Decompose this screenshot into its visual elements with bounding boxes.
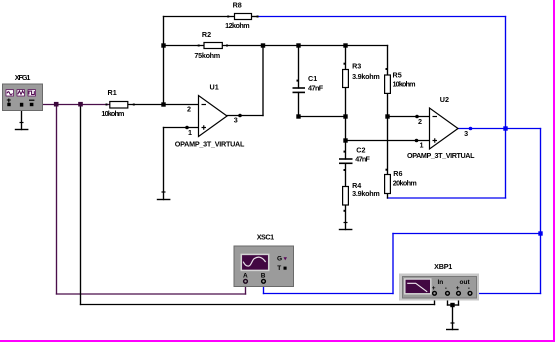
XFG1 button square	[28, 90, 36, 96]
svg-text:12kohm: 12kohm	[225, 21, 250, 30]
node: purple branch to XSC1 A	[54, 102, 59, 107]
wire: blue net from R8 right to far right vertical	[258, 16, 506, 18]
XFG1 + terminal	[7, 99, 11, 103]
svg-text:10kohm: 10kohm	[393, 79, 416, 88]
wire: blue vertical x=541 down to bode row	[540, 129, 542, 294]
wire: black horizontal y=304.5 to XBP1 in+	[81, 304, 435, 306]
svg-text:10kohm: 10kohm	[101, 109, 124, 118]
XFG1 button sine	[6, 90, 14, 96]
svg-text:3.9kohm: 3.9kohm	[352, 72, 380, 81]
node: inverting node at pin2 wire	[161, 102, 165, 106]
svg-text:47nF: 47nF	[308, 84, 324, 93]
wire: U1 pin1 down to ground x=163.5	[163, 128, 165, 200]
wire: R5 top lead x=387.5 from R2 net corner	[387, 46, 389, 76]
svg-text:2: 2	[187, 105, 191, 114]
resistor R3 3.9kohm (vertical)	[343, 62, 380, 88]
wire: XBP1 in-/out+ join y=305	[448, 304, 459, 306]
svg-text:C2: C2	[356, 146, 365, 155]
wire: C1 top stem x=298.5	[298, 46, 300, 89]
wire: y=140.5 from R3 column to U2 pin1	[346, 140, 430, 142]
svg-text:U1: U1	[210, 83, 219, 92]
ground below XBP1	[446, 323, 459, 330]
node: inverting node at R2 net	[161, 43, 165, 47]
wire: R5 bottom lead down to R6 top	[387, 94, 389, 175]
capacitor C1 47nF	[293, 74, 324, 92]
svg-text:T: T	[277, 265, 281, 272]
svg-text:75kohm: 75kohm	[194, 51, 220, 60]
resistor R1 10kohm (horizontal)	[101, 88, 134, 118]
pin dot U2 output	[469, 127, 473, 131]
wire: blue horizontal y=293.5 to XBP1 out-	[471, 293, 541, 295]
wire: R8 net top, from inverting node vertical to R8 left lead	[164, 16, 235, 18]
wire: black vertical x=81.5 down to XBP1 in+ row	[80, 105, 82, 305]
pin dot U2 pin1	[415, 139, 419, 143]
XFG1 - terminal	[29, 99, 34, 101]
svg-text:OPAMP_3T_VIRTUAL: OPAMP_3T_VIRTUAL	[407, 151, 475, 160]
wire: C2 bottom stem to R4	[345, 163, 347, 186]
wire: purple from XFG1 + terminal to R1 left lead	[34, 104, 110, 106]
oscilloscope XSC1	[234, 233, 294, 287]
svg-text:R8: R8	[233, 0, 242, 9]
wire: y=116.5 C1 to R3 column	[299, 116, 346, 118]
ground below R4	[339, 223, 353, 230]
node: R5 bottom / U2 pin2 branch	[385, 114, 389, 118]
wire: R8 right lead short black stub	[252, 16, 259, 18]
ground below XFG1	[15, 123, 29, 130]
svg-text:47nF: 47nF	[355, 155, 370, 164]
XSC1 screen	[241, 254, 268, 270]
wire: blue vertical x=505.5 down through U2 output to y=198	[505, 17, 507, 199]
node: blue junction right column	[538, 231, 542, 235]
XBP1 response trace	[407, 283, 427, 292]
svg-text:XSC1: XSC1	[257, 233, 274, 242]
node: XBP1 ground join	[450, 303, 454, 307]
node: C1 bottom junction	[296, 114, 300, 118]
sheet border magenta bottom	[0, 340, 555, 342]
op-amp U1 OPAMP_3T_VIRTUAL	[175, 83, 245, 149]
node: C2 top / U2 pin1 branch	[343, 138, 347, 142]
wire: blue up into XSC1 B terminal	[263, 283, 265, 294]
wire: purple horizontal y=294 to XSC1 A	[57, 293, 246, 295]
wire: y=116.5 from R5 column to U2 pin2	[388, 116, 430, 118]
wire: U1 pin1 input y=127.5	[164, 127, 199, 129]
svg-text:3.9kohm: 3.9kohm	[352, 189, 380, 198]
pin dot U2 pin2	[415, 115, 419, 119]
svg-text:1: 1	[420, 140, 424, 149]
resistor R6 20kohm (vertical)	[385, 169, 417, 194]
resistor R5 10kohm (vertical)	[385, 68, 416, 93]
resistor R2 75kohm (horizontal)	[194, 30, 228, 60]
wire: blue horizontal y=233.5	[393, 233, 541, 235]
wire: U1 pin2 input y=104.5 from R1	[128, 104, 199, 106]
node: R3 top branch	[343, 43, 347, 47]
wire: XBP1 out+ stem	[458, 295, 460, 305]
svg-text:R6: R6	[393, 169, 402, 178]
wire: XBP1 in+ stem	[434, 295, 436, 305]
function generator XFG1	[3, 73, 43, 110]
wire: R3 top lead x=345.5	[345, 46, 347, 70]
svg-text:1: 1	[188, 128, 192, 137]
pin dot U1 output	[238, 114, 242, 118]
XBP1 terminals	[433, 291, 437, 295]
svg-text:R5: R5	[393, 70, 402, 79]
node: C1 top branch	[296, 43, 300, 47]
node: blue junction at U2 output	[503, 126, 507, 130]
wire: vertical x=263 from R2 net down to U1 output	[262, 46, 264, 116]
node: R2 right / U1 out branch	[261, 43, 265, 47]
svg-text:R1: R1	[108, 88, 117, 97]
svg-text:3: 3	[464, 129, 468, 138]
svg-text:3: 3	[234, 116, 238, 125]
wire: R4 bottom lead to ground	[345, 205, 347, 230]
svg-text:R3: R3	[352, 62, 361, 71]
svg-text:2: 2	[418, 117, 422, 126]
svg-text:XFG1: XFG1	[15, 73, 31, 82]
wire: R2 net y=45.5 right segment to R5 corner	[223, 45, 388, 47]
wire: purple up into XSC1 A terminal	[245, 283, 247, 294]
wire: C1 bottom stem	[298, 93, 300, 117]
capacitor C2 47nF	[339, 146, 371, 171]
pin dot U1 pin1	[185, 126, 189, 130]
XFG1 common terminal	[20, 103, 23, 107]
wire: blue horizontal y=198 from x=505.5 left to R6 bottom	[388, 197, 506, 199]
wire: R6 bottom lead	[387, 194, 389, 199]
wire: blue horizontal y=293.5 from XSC1 B	[264, 293, 394, 295]
svg-text:C1: C1	[308, 74, 317, 83]
svg-text:OPAMP_3T_VIRTUAL: OPAMP_3T_VIRTUAL	[175, 139, 245, 148]
wire: XBP1 ground stem x=452.5	[452, 305, 454, 330]
wire: XBP1 in- stem	[447, 295, 449, 305]
wire: R2 net y=45.5 left segment	[164, 45, 205, 47]
resistor R4 3.9kohm (vertical)	[343, 181, 380, 212]
wire: purple vertical x=56.5 down to oscilloscope row	[56, 105, 58, 295]
wire: XFG1 middle terminal stem to ground	[21, 107, 23, 130]
wire: vertical inverting-node feedback line x=163.5	[163, 17, 165, 105]
svg-text:U2: U2	[440, 95, 449, 104]
svg-text:A: A	[243, 273, 248, 280]
XBP1 screen	[405, 279, 431, 294]
svg-text:20kohm: 20kohm	[393, 178, 417, 187]
svg-text:B: B	[261, 273, 266, 280]
resistor R8 12kohm (horizontal)	[225, 0, 258, 30]
wire: R3 bottom lead down through junctions to C2 top plate	[345, 88, 347, 160]
XFG1 button triangle	[17, 90, 25, 96]
wire: U1 output y=115.5	[227, 115, 263, 117]
bode plotter XBP1	[399, 262, 479, 301]
XSC1 sine trace	[243, 257, 265, 266]
svg-text:XBP1: XBP1	[434, 262, 452, 271]
svg-text:R2: R2	[202, 30, 211, 39]
node: branch to XBP1 in+	[78, 102, 83, 107]
wire: blue U2 output y=128.5	[458, 128, 541, 130]
svg-text:In: In	[438, 279, 444, 286]
svg-text:G: G	[277, 255, 282, 262]
wire: blue vertical x=393	[392, 234, 394, 294]
ground below U1 pin1	[157, 192, 171, 200]
sheet border magenta right	[553, 0, 555, 342]
op-amp U2 OPAMP_3T_VIRTUAL	[407, 95, 475, 160]
node: R3 bottom junction	[343, 114, 347, 118]
